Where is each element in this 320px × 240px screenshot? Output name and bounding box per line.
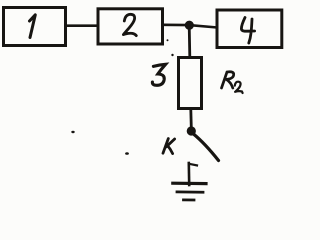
- wire block1 to block2: [66, 24, 98, 27]
- resistor R2: [179, 58, 202, 109]
- ground: [189, 164, 197, 166]
- wire junction to resistor: [188, 25, 191, 57]
- label R2: [222, 72, 234, 88]
- speckle: [125, 152, 129, 155]
- wire resistor to node K: [189, 109, 192, 128]
- block 4: [217, 10, 282, 48]
- wire block2 to block4: [163, 25, 216, 28]
- label 2: [123, 14, 136, 35]
- block 1: [4, 8, 66, 46]
- label 1: [30, 15, 36, 38]
- block 2: [98, 9, 163, 44]
- speckle: [71, 131, 74, 133]
- label 4: [241, 18, 254, 44]
- speckle: [171, 54, 173, 56]
- switch blade: [194, 134, 219, 161]
- speckle: [167, 39, 169, 41]
- label K: [163, 139, 175, 154]
- junction node: [185, 21, 194, 30]
- label 3: [152, 64, 165, 85]
- node K: [187, 126, 196, 135]
